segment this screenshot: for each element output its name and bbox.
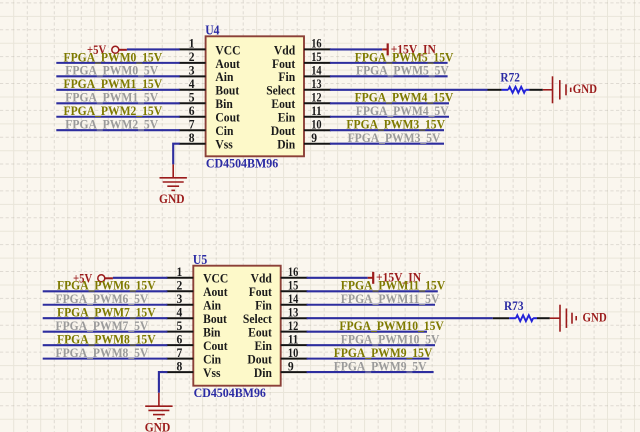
svg-text:FPGA_PWM2_5V: FPGA_PWM2_5V	[65, 118, 158, 132]
pin 13 stub (U5)	[281, 317, 308, 319]
pin names U5	[203, 271, 272, 380]
pin 2 stub (U5)	[166, 290, 193, 292]
svg-text:FPGA_PWM11_5V: FPGA_PWM11_5V	[341, 292, 440, 306]
wire resistor R72 to ground	[529, 89, 542, 91]
pin 1 stub (U4)	[179, 48, 206, 50]
svg-text:U5: U5	[193, 252, 207, 267]
wire net FPGA_PWM6_15V	[43, 290, 168, 292]
wire net FPGA_PWM4_15V	[330, 102, 449, 104]
pin 9 stub (U5)	[281, 371, 308, 373]
svg-text:Vss: Vss	[203, 365, 220, 380]
power +5V	[73, 272, 113, 286]
IC U5 CD4504BM96 body	[193, 266, 280, 386]
pin 5 stub (U5)	[166, 331, 193, 333]
pin 11 stub (U5)	[281, 344, 308, 346]
pin 3 stub (U5)	[166, 304, 193, 306]
wire net FPGA_PWM6_5V	[43, 304, 168, 306]
svg-text:GND: GND	[573, 82, 597, 96]
pin 2 stub (U4)	[179, 62, 206, 64]
resistor R72	[502, 89, 509, 91]
IC U4 CD4504BM96 body	[206, 36, 304, 156]
ground GND (U4 Vss)	[160, 164, 187, 190]
svg-text:FPGA_PWM9_15V: FPGA_PWM9_15V	[334, 346, 433, 360]
wire net FPGA_PWM5_5V	[330, 75, 448, 77]
svg-text:GND: GND	[159, 192, 185, 206]
wire segment to resistor lead	[493, 317, 509, 319]
wire net FPGA_PWM7_5V	[43, 331, 168, 333]
svg-text:FPGA_PWM1_5V: FPGA_PWM1_5V	[65, 91, 158, 105]
svg-text:FPGA_PWM3_5V: FPGA_PWM3_5V	[348, 131, 441, 145]
wire net FPGA_PWM4_5V	[330, 116, 449, 118]
wire net FPGA_PWM5_15V	[330, 62, 448, 64]
pin 3 stub (U4)	[179, 75, 206, 77]
svg-text:FPGA_PWM8_5V: FPGA_PWM8_5V	[56, 346, 149, 360]
pin 6 stub (U4)	[179, 116, 206, 118]
ground GND (R72)	[543, 76, 571, 103]
svg-text:FPGA_PWM4_15V: FPGA_PWM4_15V	[355, 91, 454, 105]
wire Vss pin 8 to ground	[173, 144, 180, 165]
svg-text:9: 9	[288, 358, 294, 373]
wire net FPGA_PWM2_15V	[56, 116, 179, 118]
svg-text:FPGA_PWM10_15V: FPGA_PWM10_15V	[339, 319, 444, 333]
svg-text:FPGA_PWM5_5V: FPGA_PWM5_5V	[356, 64, 449, 78]
pin 12 stub (U5)	[281, 331, 308, 333]
wire net FPGA_PWM9_15V	[307, 358, 430, 360]
wire net FPGA_PWM11_15V	[307, 290, 438, 292]
svg-text:FPGA_PWM7_5V: FPGA_PWM7_5V	[56, 319, 149, 333]
pin 1 stub (U5)	[166, 277, 193, 279]
power +15V_IN	[368, 271, 422, 285]
svg-text:FPGA_PWM8_15V: FPGA_PWM8_15V	[57, 333, 156, 347]
svg-text:FPGA_PWM6_15V: FPGA_PWM6_15V	[57, 279, 156, 293]
svg-text:FPGA_PWM4_5V: FPGA_PWM4_5V	[356, 104, 449, 118]
wire net FPGA_PWM8_15V	[43, 344, 168, 346]
svg-text:CD4504BM96: CD4504BM96	[194, 386, 267, 400]
wire net FPGA_PWM1_15V	[56, 89, 179, 91]
wire segment to resistor lead	[488, 89, 502, 91]
ground GND (R73)	[550, 305, 576, 332]
wire +5V to pin 1 (U5)	[113, 277, 167, 279]
svg-text:FPGA_PWM1_15V: FPGA_PWM1_15V	[64, 77, 163, 91]
pin 4 stub (U4)	[179, 89, 206, 91]
wire net FPGA_PWM3_15V	[330, 129, 444, 131]
wire pin 16 to +15V_IN	[330, 48, 382, 50]
pin 8 stub (U5)	[166, 371, 193, 373]
pin 7 stub (U5)	[166, 358, 193, 360]
wire net FPGA_PWM7_15V	[43, 317, 168, 319]
ground GND (U5 Vss)	[145, 393, 172, 419]
pin 13 stub (U4)	[304, 89, 331, 91]
pin 9 stub (U4)	[304, 143, 331, 145]
power +15V_IN	[382, 42, 436, 56]
svg-text:FPGA_PWM2_15V: FPGA_PWM2_15V	[64, 104, 163, 118]
svg-text:GND: GND	[583, 311, 607, 325]
wire net FPGA_PWM0_15V	[56, 62, 179, 64]
svg-text:R72: R72	[500, 71, 520, 85]
wire net FPGA_PWM1_5V	[56, 102, 179, 104]
svg-text:FPGA_PWM0_15V: FPGA_PWM0_15V	[64, 50, 163, 64]
wire resistor R73 to ground	[537, 317, 550, 319]
pin 16 stub (U4)	[304, 48, 331, 50]
wire pin 13 to resistor R72	[330, 89, 488, 91]
pin names U4	[215, 42, 295, 151]
svg-text:FPGA_PWM6_5V: FPGA_PWM6_5V	[56, 292, 149, 306]
svg-text:FPGA_PWM0_5V: FPGA_PWM0_5V	[65, 64, 158, 78]
pin 8 stub (U4)	[179, 143, 206, 145]
svg-text:FPGA_PWM5_15V: FPGA_PWM5_15V	[355, 50, 454, 64]
wire net FPGA_PWM8_5V	[43, 358, 168, 360]
wire net FPGA_PWM9_5V	[307, 371, 434, 373]
svg-text:Din: Din	[277, 137, 296, 152]
pin 10 stub (U5)	[281, 358, 308, 360]
pin 14 stub (U5)	[281, 304, 308, 306]
pin 11 stub (U4)	[304, 116, 331, 118]
wire pin 16 to +15V_IN	[307, 277, 368, 279]
svg-text:8: 8	[177, 358, 183, 373]
wire net FPGA_PWM3_5V	[330, 143, 444, 145]
svg-text:GND: GND	[145, 420, 171, 432]
pin 4 stub (U5)	[166, 317, 193, 319]
pin 15 stub (U4)	[304, 62, 331, 64]
svg-text:CD4504BM96: CD4504BM96	[206, 157, 279, 171]
wire +5V to pin 1 (U4)	[127, 48, 180, 50]
pin 16 stub (U5)	[281, 277, 308, 279]
wire Vss pin 8 to ground	[159, 372, 168, 393]
wire net FPGA_PWM10_5V	[307, 344, 435, 346]
svg-text:U4: U4	[205, 23, 219, 38]
pin 15 stub (U5)	[281, 290, 308, 292]
svg-text:FPGA_PWM3_15V: FPGA_PWM3_15V	[346, 118, 445, 132]
svg-text:FPGA_PWM10_5V: FPGA_PWM10_5V	[341, 333, 440, 347]
wire net FPGA_PWM0_5V	[56, 75, 179, 77]
svg-text:R73: R73	[504, 299, 524, 313]
svg-text:Vss: Vss	[215, 137, 232, 152]
svg-text:FPGA_PWM9_5V: FPGA_PWM9_5V	[334, 360, 427, 374]
power +5V	[87, 43, 127, 57]
wire net FPGA_PWM11_5V	[307, 304, 435, 306]
wire pin 13 to resistor R73	[307, 317, 493, 319]
pin 5 stub (U4)	[179, 102, 206, 104]
svg-text:FPGA_PWM7_15V: FPGA_PWM7_15V	[57, 306, 156, 320]
svg-text:9: 9	[311, 130, 317, 145]
wire net FPGA_PWM2_5V	[56, 129, 179, 131]
pin 12 stub (U4)	[304, 102, 331, 104]
wire net FPGA_PWM10_15V	[307, 331, 427, 333]
svg-text:FPGA_PWM11_15V: FPGA_PWM11_15V	[341, 279, 446, 293]
svg-text:8: 8	[189, 130, 195, 145]
svg-text:Din: Din	[254, 365, 273, 380]
pin 10 stub (U4)	[304, 129, 331, 131]
pin 14 stub (U4)	[304, 75, 331, 77]
pin 7 stub (U4)	[179, 129, 206, 131]
pin 6 stub (U5)	[166, 344, 193, 346]
resistor R73	[509, 317, 516, 319]
